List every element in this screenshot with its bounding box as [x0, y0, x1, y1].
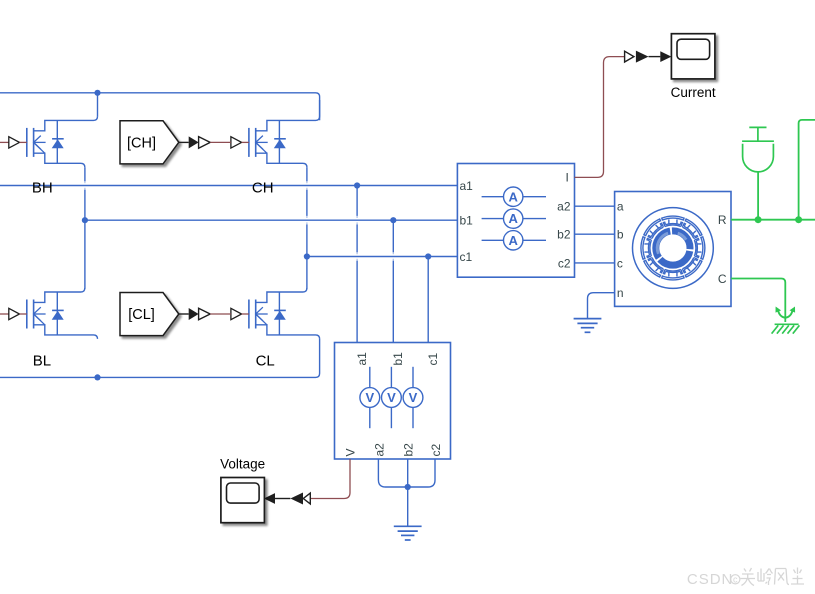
transistor CH : channel bar — [255, 128, 257, 157]
svg-text:CL: CL — [256, 352, 275, 369]
transistor CH : drain path — [256, 116, 320, 130]
ground (electrical reference) under motor — [574, 318, 602, 320]
svg-text:V: V — [365, 390, 374, 405]
transistor BH : channel bar — [33, 128, 35, 157]
motor rotor gap 1 — [670, 227, 672, 235]
transistor BH : drain path — [34, 116, 98, 130]
svg-text:A: A — [509, 211, 519, 226]
svg-text:V: V — [387, 390, 396, 405]
transistor BL : gate wire — [20, 313, 27, 315]
signal arrow (filled) — [636, 51, 649, 63]
PS wire to CL gate — [210, 313, 231, 315]
svg-text:n: n — [617, 286, 624, 300]
wire case C to reference — [731, 279, 785, 323]
node junction phase B — [82, 217, 88, 223]
transistor BH : body stub and arrow — [34, 141, 46, 143]
mech reference arrowhead right — [790, 307, 796, 313]
svg-text:V: V — [344, 448, 358, 456]
signal arrow CH (filled) — [189, 136, 199, 148]
svg-text:V: V — [409, 390, 418, 405]
motor block M1 — [615, 192, 731, 307]
transistor CH : gate input port triangle — [231, 137, 242, 148]
transistor CL : diode cathode bar — [274, 309, 286, 311]
wire net V- bottom rail — [0, 339, 320, 378]
svg-text:c1: c1 — [426, 353, 440, 366]
Simulink-PS converter CH (open triangle) — [199, 137, 211, 149]
transistor BL : gate bar — [26, 300, 28, 329]
ammeter A1 wire — [482, 196, 546, 198]
scope block Current — [671, 34, 715, 79]
svg-text:CH: CH — [252, 179, 274, 196]
node junction phase C — [304, 253, 310, 259]
transistor BH : diode triangle — [52, 139, 64, 148]
svg-text:[CH]: [CH] — [127, 135, 156, 151]
node junction top rail / BH drain — [94, 90, 100, 96]
transistor CL : body stub and arrow — [256, 313, 268, 315]
svg-text:BL: BL — [33, 352, 51, 369]
voltmeter V1 wire — [369, 367, 371, 428]
wire from tag CH to converter — [179, 141, 189, 143]
transistor CL : gate input port triangle — [231, 308, 242, 319]
PS wire V to converter — [310, 459, 350, 499]
transistor CL : gate bar — [248, 300, 250, 329]
svg-text:b1: b1 — [391, 352, 405, 366]
voltmeter V1 circle — [360, 388, 380, 408]
signal wire — [275, 498, 290, 500]
svg-text:a: a — [617, 200, 624, 214]
wire neutral to ground — [407, 487, 409, 526]
svg-text:A: A — [509, 189, 519, 204]
svg-text:I: I — [565, 171, 568, 185]
node junction bottom rail / BL source — [94, 374, 100, 380]
svg-text:a1: a1 — [355, 352, 369, 366]
from tag [CL] — [120, 293, 179, 336]
transistor CH : diode cathode bar — [274, 138, 286, 140]
transistor BL : source path — [34, 325, 98, 339]
wire phase C vertical (CH source to CL drain) — [306, 167, 308, 289]
watermark copyright — [731, 575, 740, 584]
svg-text:c2: c2 — [558, 256, 571, 270]
PS-Simulink converter triangle (open) — [625, 51, 634, 62]
node junction vsense neutral — [405, 484, 411, 490]
node junction phase C tap — [425, 253, 431, 259]
wire BH drain riser — [97, 93, 99, 117]
transistor BL : diode cathode bar — [52, 309, 64, 311]
signal wire — [649, 56, 661, 58]
transistor CH : gate bar — [248, 128, 250, 157]
svg-text:R: R — [718, 213, 727, 227]
motor stator outer circle — [633, 208, 714, 289]
transistor CH : diode triangle — [274, 139, 286, 148]
svg-text:a2: a2 — [372, 443, 386, 457]
svg-text:a2: a2 — [557, 200, 571, 214]
transistor CH : source path — [256, 153, 307, 167]
wire tap phase C to voltage sensor c1 — [427, 257, 429, 343]
ammeter A1 circle — [504, 187, 523, 206]
inertia J1 cup — [743, 144, 774, 172]
Simulink-PS converter CL (open triangle) — [199, 308, 211, 320]
wire b2-b — [575, 233, 615, 235]
wire phase B vertical (BH source to BL drain) — [84, 167, 86, 289]
transistor CL : diode triangle — [274, 311, 286, 320]
transistor BH : body-source diagonal — [35, 144, 45, 154]
svg-text:a1: a1 — [460, 179, 474, 193]
gate feed wire BL — [0, 313, 9, 315]
PS wire to CH gate — [210, 141, 231, 143]
wire net phase C rail — [307, 256, 458, 258]
transistor CH : body diode wire — [278, 120, 280, 163]
from tag [CH] — [120, 121, 179, 164]
node junction phase B tap — [390, 217, 396, 223]
transistor CL : drain path — [256, 288, 307, 302]
wire rotor R net — [731, 219, 815, 221]
transistor BL : channel bar — [33, 300, 35, 329]
svg-text:[CL]: [CL] — [128, 307, 155, 323]
ammeter A2 wire — [482, 218, 546, 220]
ammeter A2 circle — [504, 209, 523, 228]
transistor BL : diode triangle — [52, 311, 64, 320]
wire n to ground — [588, 293, 615, 319]
transistor BH : source path — [34, 153, 85, 167]
wire inertia stem — [757, 172, 759, 220]
mech reference hatching — [772, 325, 800, 333]
transistor CL : source path — [256, 325, 320, 339]
node junction R-riser — [795, 216, 802, 223]
ammeter A3 wire — [482, 239, 546, 241]
motor rotor gap 3 — [659, 258, 660, 259]
wire c2 down — [408, 459, 435, 487]
wire a2-a — [575, 205, 615, 207]
motor rotor magnet light arc 1 — [657, 233, 668, 254]
svg-text:b2: b2 — [402, 443, 416, 457]
node junction R-inertia — [755, 216, 762, 223]
motor rotor gap 2 — [686, 249, 694, 251]
ground (electrical reference) under vsense — [394, 525, 422, 527]
transistor CL : gate wire — [242, 313, 249, 315]
motor rotor magnet light arc 2 — [678, 233, 686, 240]
mech reference bar — [775, 323, 799, 325]
scope block Voltage — [221, 478, 265, 523]
voltage sensor block U2 — [335, 343, 451, 460]
svg-text:b: b — [617, 228, 624, 242]
svg-text:b2: b2 — [557, 228, 571, 242]
svg-text:c: c — [617, 256, 623, 270]
transistor BH : gate input port triangle — [9, 137, 20, 148]
PS-Simulink converter triangle (open) — [303, 493, 310, 504]
transistor BL : gate input port triangle — [9, 308, 20, 319]
transistor CL : body-source diagonal — [257, 315, 267, 325]
transistor BL : body-source diagonal — [35, 315, 45, 325]
svg-text:C: C — [718, 272, 727, 286]
input arrowhead — [264, 493, 275, 504]
inertia J1 top bar — [742, 140, 774, 142]
transistor CL : channel bar — [255, 300, 257, 329]
svg-text:Current: Current — [671, 85, 716, 100]
gate feed wire BH — [0, 141, 9, 143]
svg-text:c2: c2 — [429, 444, 443, 457]
transistor BL : drain path — [34, 288, 85, 302]
svg-text:CSDN: CSDN — [687, 571, 734, 588]
ammeter A3 circle — [504, 231, 523, 250]
mech reference curved arrow right — [785, 311, 792, 318]
wire tap phase A to voltage sensor a1 — [356, 186, 358, 343]
wire net phase A rail — [0, 185, 457, 187]
wire CH drain riser — [319, 100, 321, 116]
transistor BH : body diode wire — [56, 120, 58, 163]
voltmeter V2 circle — [382, 388, 402, 408]
svg-text:Voltage: Voltage — [220, 457, 265, 472]
PS wire I to converter — [575, 57, 625, 178]
wire hop fade stubs — [85, 181, 393, 261]
transistor CH : body stub and arrow — [256, 141, 268, 143]
wire net phase B rail — [85, 219, 458, 221]
wire net V+ top rail — [0, 93, 320, 121]
transistor BH : gate bar — [26, 128, 28, 157]
transistor BL : body diode wire — [56, 292, 58, 335]
voltmeter V2 wire — [390, 367, 392, 428]
wire a2 down — [378, 459, 407, 487]
wire tap phase B to voltage sensor b1 — [392, 220, 394, 342]
wire R net riser to right edge — [799, 120, 815, 220]
wire b2 down — [407, 459, 409, 487]
svg-text:c1: c1 — [460, 250, 473, 264]
transistor CH : body-source diagonal — [257, 144, 267, 154]
current sensor block U1 — [457, 164, 574, 278]
inertia J1 stem top — [757, 127, 759, 141]
signal arrow (filled) — [290, 493, 303, 505]
transistor BH : gate wire — [20, 141, 27, 143]
inertia J1 T bar — [749, 126, 766, 128]
voltmeter V3 wire — [412, 367, 414, 428]
transistor BL : body stub and arrow — [34, 313, 46, 315]
node junction phase A tap — [354, 182, 360, 188]
transistor CH : gate wire — [242, 141, 249, 143]
signal arrow CL (filled) — [189, 308, 199, 320]
svg-text:c: c — [733, 575, 738, 585]
wire from tag CL to converter — [179, 313, 189, 315]
mech reference arrowhead left — [776, 307, 782, 313]
wire c2-c — [575, 262, 615, 264]
svg-text:b1: b1 — [460, 214, 474, 228]
motor rotor ring — [656, 231, 690, 265]
voltmeter V3 circle — [403, 388, 423, 408]
watermark CJK glyphs — [741, 568, 756, 586]
svg-text:A: A — [509, 233, 519, 248]
mech reference curved arrow left — [778, 311, 785, 318]
transistor BH : diode cathode bar — [52, 138, 64, 140]
input arrowhead — [660, 51, 671, 62]
svg-text:BH: BH — [32, 179, 53, 196]
transistor CL : body diode wire — [278, 292, 280, 335]
motor stator teeth — [662, 216, 684, 226]
